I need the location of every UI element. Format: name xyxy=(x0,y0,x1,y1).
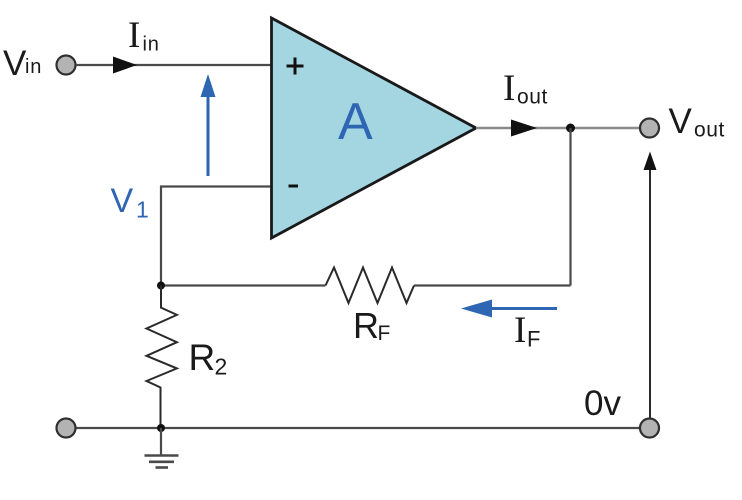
svg-text:I: I xyxy=(503,68,515,109)
svg-text:F: F xyxy=(378,322,391,345)
resistor RF xyxy=(326,268,415,304)
arrowhead Iin current direction xyxy=(113,57,137,74)
op-amp - input symbol xyxy=(289,185,299,188)
svg-text:in: in xyxy=(143,34,160,56)
svg-text:V: V xyxy=(669,102,693,141)
terminal Vin xyxy=(57,56,76,75)
ground xyxy=(145,428,179,468)
arrow Vout measurement (up arrow on right side) xyxy=(644,152,657,419)
op-amp U1 xyxy=(272,18,477,238)
svg-text:R: R xyxy=(353,305,379,346)
wire input Vin to op-amp non-inverting input xyxy=(76,64,272,66)
terminal Vout xyxy=(640,119,659,138)
arrow IF (blue left arrow, feedback current) xyxy=(461,300,557,318)
arrowhead Iout current direction xyxy=(511,120,537,137)
node V1 junction xyxy=(157,282,165,290)
terminal 0v right xyxy=(640,419,659,438)
wire feedback drop from output node xyxy=(569,128,571,286)
wire output from op-amp apex to Vout terminal xyxy=(476,127,640,129)
node ground junction xyxy=(157,424,165,432)
wire inverting input from node V1 xyxy=(161,187,272,286)
svg-text:1: 1 xyxy=(136,197,149,223)
wire feedback left segment to node V1 xyxy=(161,284,326,286)
svg-text:A: A xyxy=(338,93,373,151)
svg-text:0v: 0v xyxy=(584,384,621,423)
resistor R2 xyxy=(147,286,177,429)
svg-text:V: V xyxy=(3,44,27,83)
svg-text:out: out xyxy=(517,86,548,109)
arrow V1 (blue up arrow at non-inverting node) xyxy=(201,74,216,176)
op-amp + input symbol xyxy=(287,58,304,75)
svg-text:F: F xyxy=(527,327,540,352)
wire feedback right segment xyxy=(414,284,571,286)
svg-text:out: out xyxy=(694,119,725,142)
svg-text:I: I xyxy=(514,310,526,351)
node output junction xyxy=(566,124,575,133)
svg-text:R: R xyxy=(189,337,216,378)
svg-text:I: I xyxy=(128,15,140,56)
wire bottom 0v rail xyxy=(76,427,640,429)
terminal 0v left xyxy=(57,419,76,438)
svg-text:in: in xyxy=(25,56,42,78)
svg-text:V: V xyxy=(111,182,134,220)
svg-text:2: 2 xyxy=(215,354,228,380)
